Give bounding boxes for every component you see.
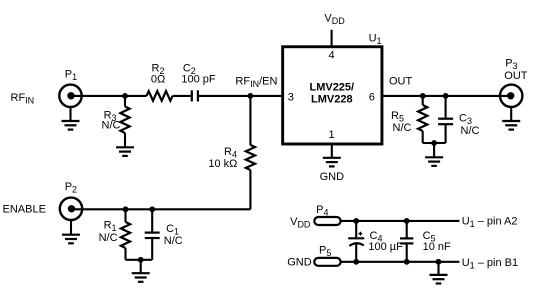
node A junction dot — [122, 93, 128, 99]
wire R1-C1 bottom rail — [126, 259, 153, 261]
svg-text:10 kΩ: 10 kΩ — [208, 158, 237, 170]
svg-text:GND: GND — [320, 171, 345, 183]
wire node B down to R4 — [249, 96, 251, 145]
node K junction dot (C4 bottom) — [353, 259, 359, 265]
wire C2 to U1 pin 3 — [199, 95, 283, 97]
svg-text:100 µF: 100 µF — [368, 241, 403, 253]
wire R2 to C2 — [173, 95, 191, 97]
capacitor C2 — [192, 90, 198, 101]
ground (U1 pin 1) — [323, 158, 341, 167]
wire R4 to ENABLE rail — [249, 170, 251, 209]
resistor R4 — [246, 145, 255, 170]
svg-text:1: 1 — [328, 129, 334, 141]
resistor R5 — [418, 105, 427, 131]
ground (R1/C1) — [132, 273, 150, 282]
wire R5-C3 bottom rail — [423, 142, 446, 144]
capacitor C4 (polarized) — [348, 238, 364, 246]
wire P2 to R4 (ENABLE rail) — [72, 208, 251, 210]
node H junction dot (R1/C1 ground) — [138, 257, 144, 263]
ground (R5/C3) — [425, 157, 443, 166]
ground (P2) — [62, 235, 80, 244]
svg-text:0Ω: 0Ω — [151, 74, 165, 86]
node M junction dot (GND rail ground) — [436, 259, 442, 265]
wire node J to C5 — [406, 221, 408, 238]
wire P2 ground stem — [70, 220, 72, 235]
connector P3 — [500, 85, 522, 107]
svg-text:3: 3 — [288, 91, 294, 103]
wire U1 pin 1 to ground — [331, 144, 333, 158]
svg-text:4: 4 — [328, 49, 334, 61]
wire P3 ground stem — [510, 107, 512, 121]
ground (R3) — [116, 147, 134, 156]
capacitor C5 — [400, 238, 413, 243]
svg-text:100 pF: 100 pF — [181, 74, 216, 86]
wire C5 to GND rail — [406, 243, 408, 261]
wire C1 to bottom rail — [151, 238, 153, 260]
wire node E to ground — [433, 143, 435, 157]
connector P2 — [60, 198, 82, 220]
node L junction dot (C5 bottom) — [404, 259, 410, 265]
wire node G to C1 — [151, 209, 153, 231]
wire C3 to bottom rail — [445, 124, 447, 143]
connector P1 — [59, 85, 81, 107]
svg-text:N/C: N/C — [461, 125, 480, 137]
ground (GND rail) — [430, 275, 448, 284]
svg-text:OUT: OUT — [389, 76, 413, 88]
svg-text:N/C: N/C — [99, 232, 118, 244]
resistor R1 — [121, 222, 130, 248]
svg-text:N/C: N/C — [102, 120, 121, 132]
svg-text:ENABLE: ENABLE — [3, 204, 46, 216]
node E junction dot (R5/C3 ground) — [431, 140, 437, 146]
node F junction dot (R1) — [123, 206, 129, 212]
ground (P1) — [62, 121, 80, 130]
svg-text:LMV225/: LMV225/ — [309, 82, 354, 94]
svg-text:6: 6 — [369, 91, 375, 103]
node C junction dot (R5) — [420, 93, 426, 99]
wire P1 to R2 — [71, 95, 147, 97]
node G junction dot (C1) — [149, 206, 155, 212]
node J junction dot (C5 top) — [404, 218, 410, 224]
resistor R3 — [120, 107, 129, 134]
connector P4 — [314, 217, 340, 225]
wire VDD to pin 4 — [331, 30, 333, 47]
svg-text:LMV228: LMV228 — [311, 94, 353, 106]
svg-text:N/C: N/C — [164, 235, 183, 247]
svg-text:10 nF: 10 nF — [423, 241, 451, 253]
capacitor C1 — [145, 233, 160, 238]
wire VDD rail — [341, 220, 460, 222]
svg-text:GND: GND — [287, 256, 312, 268]
capacitor C3 — [438, 119, 453, 125]
node D junction dot (C3) — [443, 93, 449, 99]
node I junction dot (C4 top) — [353, 218, 359, 224]
wire node F to R1 — [124, 209, 126, 222]
wire R1 to bottom rail — [124, 248, 126, 260]
wire node I to C4 — [355, 221, 357, 237]
wire P1 ground stem — [69, 107, 71, 121]
resistor R2 — [147, 91, 173, 101]
wire node M to ground — [437, 262, 439, 275]
wire R5 to bottom rail — [422, 131, 424, 143]
wire node H to ground — [140, 260, 142, 273]
wire C4 to GND rail — [355, 244, 357, 262]
wire node D to C3 — [445, 96, 447, 118]
wire U1 pin 6 to P3 — [382, 95, 511, 97]
wire GND rail — [341, 261, 460, 263]
node B junction dot (RF_IN/EN) — [248, 93, 254, 99]
capacitor C4 plus sign — [359, 232, 363, 236]
connector P5 — [314, 258, 340, 266]
svg-text:OUT: OUT — [504, 70, 528, 82]
wire node C to R5 — [422, 96, 424, 105]
op-amp U1 box LMV225/LMV228 — [283, 47, 382, 144]
ground (P3) — [502, 121, 520, 130]
wire node A to R3 — [124, 96, 126, 107]
wire R3 to ground — [124, 133, 126, 147]
svg-text:N/C: N/C — [393, 122, 412, 134]
